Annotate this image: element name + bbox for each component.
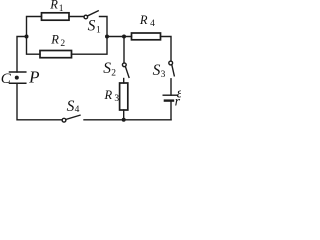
wire R2 left to left column bbox=[27, 37, 41, 55]
wire battery to bottom wire bbox=[170, 102, 172, 120]
svg-text:R1: R1 bbox=[49, 0, 64, 14]
switch S2 wire from node B bbox=[123, 37, 125, 64]
wire node A to capacitor branch bbox=[17, 37, 27, 73]
wire R3 to bottom bbox=[123, 110, 125, 120]
wire S2 to R3 bbox=[123, 79, 125, 84]
battery short plate bbox=[165, 99, 173, 101]
svg-text:S2: S2 bbox=[103, 60, 116, 79]
svg-text:R4: R4 bbox=[139, 13, 155, 29]
switch S2 bbox=[122, 63, 126, 67]
svg-text:S1: S1 bbox=[88, 18, 101, 36]
resistor R3 bbox=[120, 83, 128, 110]
svg-text:S3: S3 bbox=[153, 62, 166, 80]
capacitor C top plate bbox=[10, 71, 26, 73]
svg-text:r: r bbox=[175, 95, 181, 110]
svg-text:S4: S4 bbox=[67, 98, 80, 115]
node left junction dot bbox=[25, 35, 29, 39]
capacitor C bottom plate bbox=[10, 82, 26, 84]
wire S3 to battery bbox=[170, 79, 172, 95]
node B junction dot bbox=[122, 35, 126, 39]
resistor R4 bbox=[132, 33, 161, 40]
wire R1 to S1 bbox=[69, 16, 84, 18]
resistor R1 bbox=[42, 13, 70, 20]
battery long plate bbox=[163, 94, 176, 96]
svg-text:P: P bbox=[28, 68, 39, 87]
wire top-left from corner to R1 bbox=[27, 17, 42, 37]
resistor R2 bbox=[40, 51, 72, 58]
svg-text:R3: R3 bbox=[104, 88, 120, 104]
node A junction dot bbox=[105, 35, 109, 39]
node bottom junction dot bbox=[122, 118, 126, 122]
switch S1 bbox=[84, 15, 88, 19]
svg-text:R2: R2 bbox=[50, 33, 65, 50]
switch S3 bbox=[169, 61, 173, 65]
capacitor point P dot bbox=[15, 76, 19, 80]
horizontal node wire y=36.5 bbox=[107, 36, 132, 38]
wire S4 to bottom-right corner bbox=[84, 119, 171, 121]
switch S4 bbox=[62, 118, 66, 122]
wire R4 to right column corner bbox=[161, 37, 172, 62]
svg-text:C: C bbox=[1, 71, 12, 87]
wire S1 to corner and down to node A bbox=[100, 17, 108, 37]
wire vertical x=107 down to R2 line bbox=[72, 37, 108, 55]
wire capacitor to bottom-left corner bbox=[17, 83, 62, 120]
